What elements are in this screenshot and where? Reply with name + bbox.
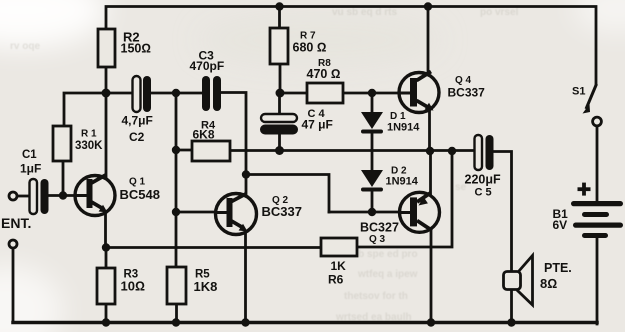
battery B1 <box>553 183 624 238</box>
wire: Q4 collector to top rail <box>427 7 430 75</box>
svg-text:BC337: BC337 <box>448 86 486 100</box>
svg-text:1K8: 1K8 <box>194 279 218 294</box>
wire: Q1 emitter feedback line to R6 <box>106 246 321 249</box>
wire: R7/C4 node to R8 left <box>280 92 307 95</box>
wire: R8 right to Q4 base <box>343 92 400 95</box>
wire: R4 left lead <box>176 149 192 152</box>
svg-text:vu sb eq d rts: vu sb eq d rts <box>332 7 397 18</box>
wire: R1 top to C2 left (base node of Q1 segment) <box>64 93 133 126</box>
junction: Q2 emitter / ground rail <box>241 318 249 326</box>
wire: D2 bottom lead <box>371 192 374 213</box>
svg-text:6K8: 6K8 <box>193 127 215 141</box>
diode D2 1N914 <box>361 165 419 191</box>
svg-text:6V: 6V <box>553 218 568 232</box>
junction: R1 bottom / Q1 base <box>59 191 67 199</box>
junction: Q4 emitter / Q3 emitter <box>426 147 434 155</box>
junction: R6 node / C5 left <box>448 147 456 155</box>
junction: R4 left / divider <box>172 146 180 154</box>
svg-text:150Ω: 150Ω <box>121 41 151 55</box>
diode D1 1N914 <box>361 111 420 133</box>
input terminal lower <box>9 240 17 248</box>
capacitor C2 <box>122 76 153 144</box>
svg-text:220μF: 220μF <box>465 172 502 186</box>
svg-text:Q 1: Q 1 <box>129 176 146 187</box>
svg-text:wtfeq a ipew: wtfeq a ipew <box>357 269 418 280</box>
resistor R4 <box>192 119 230 161</box>
wire: R7 bottom lead <box>279 64 282 93</box>
wire: Q3 collector to ground rail <box>430 230 433 324</box>
svg-text:330K: 330K <box>75 140 103 152</box>
wire: Q2 base lead <box>176 211 217 214</box>
transistor Q2 BC337 <box>216 194 302 235</box>
svg-text:680 Ω: 680 Ω <box>293 41 327 55</box>
junction: top rail / Q4 collector <box>424 2 432 10</box>
svg-text:BC327: BC327 <box>360 221 399 235</box>
svg-text:10Ω: 10Ω <box>121 279 145 294</box>
svg-text:BC337: BC337 <box>262 204 302 219</box>
wire: R3 top lead <box>105 248 108 269</box>
wire: top supply rail <box>106 7 596 85</box>
junction: Q2 base / divider <box>172 208 180 216</box>
wire: C3 right to corner down to Q2 collector <box>221 93 246 197</box>
junction: top rail / R7 <box>275 2 283 10</box>
wire: R7 top lead <box>278 7 281 29</box>
svg-text:R 1: R 1 <box>81 129 97 140</box>
junction: Q3 collector / ground rail <box>427 318 435 326</box>
capacitor C5 <box>465 135 502 198</box>
svg-text:470 Ω: 470 Ω <box>307 67 341 81</box>
transistor Q4 BC337 <box>399 72 485 113</box>
wire: input to C1 <box>17 195 30 198</box>
junction: Q1 emitter / R3 top <box>102 243 110 251</box>
switch S1 <box>572 84 601 126</box>
wire: feedback line R4 right to C5 left <box>230 149 475 152</box>
capacitor C3 <box>190 49 225 112</box>
svg-text:1K: 1K <box>331 259 347 273</box>
svg-text:ENT.: ENT. <box>1 215 31 231</box>
svg-text:1μF: 1μF <box>20 162 41 176</box>
svg-text:PTE.: PTE. <box>544 261 572 275</box>
resistor R5 <box>167 267 217 304</box>
wire: Q1 emitter down <box>104 212 107 248</box>
wire: C1 to Q1 base <box>49 194 77 197</box>
wire: Q2 collector branch to Q3 base <box>246 175 329 213</box>
wire: Q2 emitter to ground rail <box>244 230 247 323</box>
svg-text:po vrsel: po vrsel <box>480 7 519 18</box>
svg-text:Q 3: Q 3 <box>369 234 386 245</box>
resistor R6 <box>321 238 357 286</box>
wire: C4 top lead <box>278 93 281 114</box>
svg-text:BC548: BC548 <box>120 187 160 202</box>
wire: Q3 base wire <box>329 211 401 214</box>
svg-text:C2: C2 <box>129 130 145 144</box>
junction: R7 / R8 / C4 node <box>276 89 285 98</box>
transistor Q1 BC548 <box>75 175 160 216</box>
junction: speaker / ground rail <box>507 318 515 326</box>
junction: C2-C3 node / divider <box>172 89 180 97</box>
svg-text:C1: C1 <box>22 149 37 161</box>
junction: Q4 base / D1 top <box>368 89 376 97</box>
input terminal upper <box>9 192 17 200</box>
svg-text:47 μF: 47 μF <box>302 118 333 132</box>
svg-text:Q 4: Q 4 <box>455 75 472 86</box>
wire: R3 bottom lead <box>105 304 108 323</box>
svg-text:470pF: 470pF <box>190 59 225 73</box>
wire: divider vertical C2/C3 node to R5 <box>175 93 178 267</box>
junction: R3 / ground rail <box>102 318 110 326</box>
wire: R6 right to node <box>357 151 452 247</box>
svg-text:R6: R6 <box>328 272 344 286</box>
wire: bottom ground rail <box>13 321 597 325</box>
svg-text:1N914: 1N914 <box>386 176 419 188</box>
wire: R1 bottom lead <box>62 161 65 196</box>
capacitor C4 <box>260 108 333 135</box>
wire: speaker bottom lead <box>510 290 513 324</box>
svg-text:S1: S1 <box>572 86 585 98</box>
svg-text:1N914: 1N914 <box>387 121 420 133</box>
wire: Q4 emitter down <box>428 110 431 151</box>
svg-text:4,7μF: 4,7μF <box>122 114 153 128</box>
wire: D1 top lead <box>371 93 374 113</box>
svg-text:ob spe ed pro: ob spe ed pro <box>352 249 418 260</box>
junction: D2 bottom / Q3 base <box>368 208 376 216</box>
wire: R2 bottom to Q1 collector <box>105 67 108 179</box>
junction: R2 bottom / Q1 collector / C2 node <box>102 89 111 98</box>
resistor R3 <box>97 268 145 304</box>
resistor R2 <box>98 29 151 67</box>
wire: switch to battery top <box>596 126 599 201</box>
wire: C4 bottom lead <box>278 135 281 151</box>
svg-text:rv oqe: rv oqe <box>10 41 40 52</box>
resistor R7 <box>270 28 326 64</box>
wire: D1 to D2 <box>371 134 374 171</box>
svg-text:D 2: D 2 <box>391 165 407 176</box>
wire: Q3 emitter up <box>429 151 432 195</box>
wire: C5 right lead to speaker <box>493 152 512 273</box>
wire: battery bottom to ground rail <box>596 238 599 324</box>
wire: input lower terminal to ground rail <box>12 248 15 322</box>
resistor R8 <box>307 58 344 103</box>
wire: C2 right to C3 left <box>151 92 202 95</box>
resistor R1 <box>53 126 103 161</box>
junction: R5 / ground rail <box>172 318 180 326</box>
svg-text:C 5: C 5 <box>475 186 492 198</box>
capacitor C1 <box>20 149 49 214</box>
wire: R5 bottom lead <box>175 304 178 323</box>
speaker PTE 8 ohm <box>504 256 572 306</box>
svg-text:8Ω: 8Ω <box>540 276 557 291</box>
svg-text:thetsov for th: thetsov for th <box>344 291 408 302</box>
junction: C4 bottom / feedback line <box>275 146 284 155</box>
transistor Q3 BC327 <box>360 192 440 245</box>
junction: Q2 collector branch <box>242 170 250 178</box>
